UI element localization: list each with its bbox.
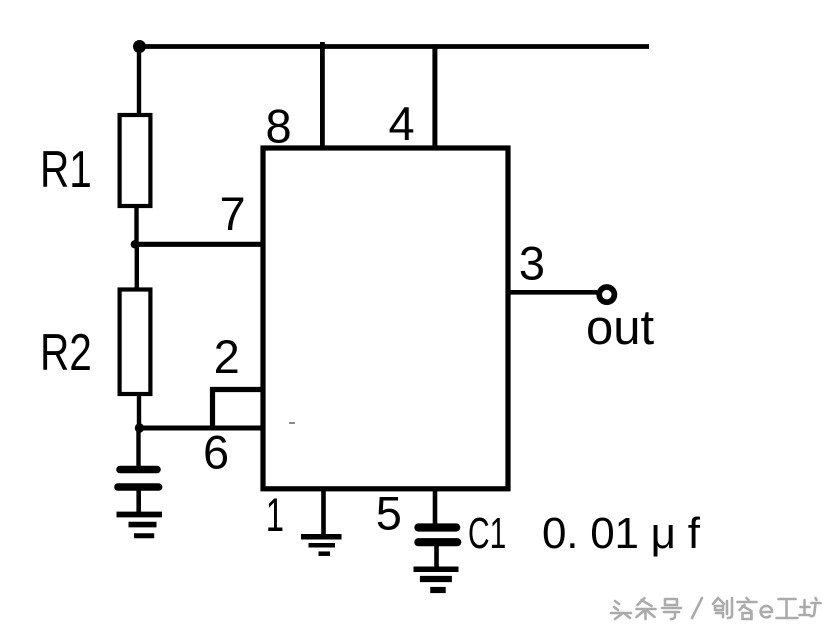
svg-text:6: 6 [203, 426, 229, 479]
svg-text:R1: R1 [40, 140, 92, 198]
wire: pin 2 jog loop [213, 390, 264, 428]
node: pin 7 junction nub [261, 241, 268, 248]
watermark char: tiao [637, 598, 656, 619]
resistor R1 [120, 115, 151, 206]
svg-text:3: 3 [519, 237, 545, 290]
watermark char: e [761, 606, 772, 617]
wire: pin 4 to rail [432, 44, 437, 148]
svg-text:5: 5 [376, 487, 402, 540]
capacitor C1 plate 2 [418, 538, 457, 546]
terminal: out circle [599, 287, 614, 302]
svg-text:1: 1 [266, 488, 284, 541]
wire: pin 7 (node A to IC) [134, 242, 263, 247]
ground (C1) line 3 [430, 587, 446, 593]
ground (C1) line 1 [414, 566, 459, 572]
svg-text:out: out [586, 301, 655, 355]
svg-text:R2: R2 [40, 323, 92, 381]
svg-text:8: 8 [266, 100, 292, 153]
capacitor C1 plate 1 [418, 523, 456, 531]
watermark: 头条号 / 创客e工坊 (vector approximation) [611, 598, 821, 619]
wire: R1 bottom to node A [134, 206, 138, 246]
resistor R2 [120, 290, 151, 395]
wire: R2 bottom to node B [137, 394, 141, 430]
ground (left) line 1 [117, 512, 163, 518]
capacitor C2 plate 2 [118, 483, 159, 491]
svg-text:0. 01 μ f: 0. 01 μ f [542, 509, 701, 558]
wire: rail down to R1 [137, 47, 141, 115]
watermark char: chuang [713, 598, 732, 618]
wire: pin 1 to ground [321, 489, 326, 535]
node B junction dot [135, 423, 144, 432]
ground (pin 1) line 3 [319, 551, 331, 556]
wire: lower plate to ground (left) [136, 488, 141, 514]
svg-text:7: 7 [220, 187, 246, 240]
watermark char: gong [777, 599, 798, 618]
ground (left) line 2 [129, 522, 157, 528]
svg-text:C1: C1 [468, 508, 506, 557]
capacitor C2 plate 1 [120, 466, 157, 474]
ground (C1) line 2 [420, 576, 452, 582]
wire: Vcc top rail [137, 44, 649, 49]
wire: C1 to ground [434, 544, 439, 568]
watermark char: hao [662, 599, 681, 619]
wire: node A down to R2 [135, 243, 139, 290]
wire: pin 3 output [508, 290, 597, 295]
wire: pin 8 to rail [320, 42, 325, 148]
ground (pin 1) line 2 [309, 543, 336, 548]
wire: pin 5 down [433, 489, 438, 525]
watermark slash [692, 598, 702, 618]
svg-text:2: 2 [214, 330, 240, 383]
watermark char: ke [738, 598, 757, 619]
wire: pin 6 (node B to IC) [137, 426, 263, 431]
stray mark [289, 422, 295, 424]
watermark char: tou [611, 601, 631, 619]
op-amp U1 555 timer body [263, 148, 508, 489]
node: Vcc junction dot [133, 40, 146, 53]
watermark char: fang [800, 598, 821, 616]
ground (pin 1) line 1 [301, 534, 342, 540]
wire: node B down to ground [136, 428, 140, 468]
svg-text:4: 4 [389, 97, 415, 150]
node A junction dot [131, 240, 139, 248]
ground (left) line 3 [134, 533, 154, 538]
